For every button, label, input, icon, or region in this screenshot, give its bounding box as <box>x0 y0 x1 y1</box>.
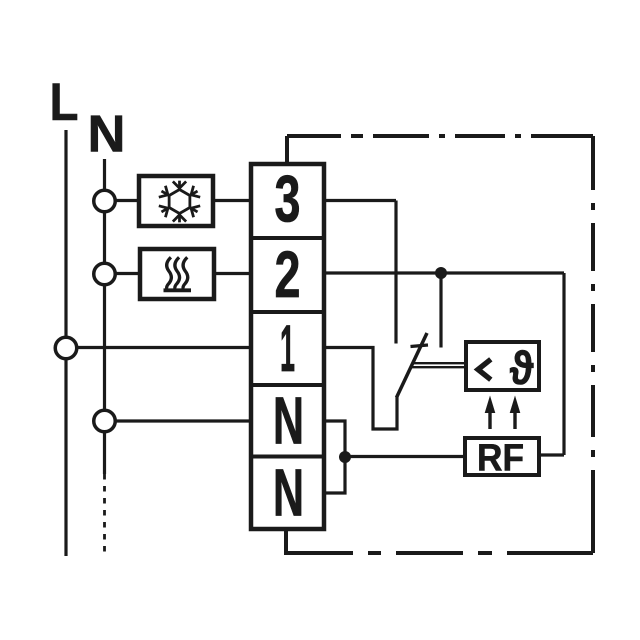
enclosure border top dash-dot <box>287 134 593 138</box>
capillary link upper line <box>412 362 466 364</box>
enclosure border bottom dash-dot <box>284 551 593 555</box>
terminal block outline <box>251 164 324 529</box>
wire L line vertical <box>64 130 67 556</box>
wire heating box to terminal 2 <box>214 272 251 275</box>
terminal block divider 2/1 <box>251 310 324 314</box>
terminal block divider 1/N <box>251 383 324 387</box>
svg-text:ϑ: ϑ <box>510 342 534 394</box>
svg-text:N: N <box>88 106 126 164</box>
svg-text:N: N <box>273 456 304 531</box>
wire N line vertical <box>103 159 106 474</box>
RF receiver box <box>465 438 539 475</box>
heating icon waves <box>167 257 188 289</box>
terminal circle on N line at cooling feed <box>94 190 116 212</box>
thermostat less-than symbol <box>478 359 491 379</box>
svg-text:2: 2 <box>275 237 301 311</box>
wire N terminals bracket <box>324 421 345 493</box>
wire terminal 3 switch contact vertical <box>394 201 397 344</box>
svg-text:RF: RF <box>477 438 524 480</box>
RF signal arrow left <box>485 396 496 430</box>
svg-text:1: 1 <box>280 311 295 385</box>
junction dot on N bracket <box>339 451 351 463</box>
wire L circle to terminal 1 <box>66 346 251 349</box>
switch contact tick <box>411 345 429 347</box>
wire cooling box to terminal 3 <box>213 199 251 202</box>
heating icon baseline bar <box>164 288 192 292</box>
switch blade <box>397 333 428 398</box>
capillary link lower line <box>410 366 466 368</box>
svg-text:N: N <box>273 384 304 459</box>
wire right riser to RF box <box>562 273 565 455</box>
heating device box <box>140 249 214 299</box>
terminal circle on N line at heating feed <box>94 263 116 285</box>
wire N line dashed tail <box>103 474 106 556</box>
junction dot on terminal 2 wire <box>435 267 447 279</box>
wire terminal 3 to switch contact horizontal <box>324 199 396 202</box>
svg-text:L: L <box>50 73 79 132</box>
svg-text:3: 3 <box>275 162 301 236</box>
terminal block divider 3/2 <box>251 236 324 240</box>
cooling snowflake icon <box>158 181 201 223</box>
thermostat sensor box <box>466 342 539 390</box>
wire N circle to terminal N <box>105 419 252 422</box>
enclosure bottom stub <box>284 529 288 553</box>
cooling device box <box>139 176 213 226</box>
wire N circle to cooling box <box>105 199 140 202</box>
terminal block divider N/N <box>251 455 324 459</box>
wire RF box right side <box>539 453 564 456</box>
terminal circle on N line at N feed <box>94 410 116 432</box>
enclosure border right dash-dot <box>591 136 595 553</box>
wire terminal 1 to switch pivot <box>324 348 397 430</box>
RF signal arrow right <box>510 396 521 430</box>
wire N bracket to RF box <box>345 455 465 458</box>
wire terminal 2 to right vertical riser <box>324 271 564 274</box>
terminal circle on L line <box>55 337 77 359</box>
enclosure top stub <box>285 136 289 164</box>
wire N circle to heating box <box>105 272 141 275</box>
wire junction to switch second contact <box>439 273 442 348</box>
